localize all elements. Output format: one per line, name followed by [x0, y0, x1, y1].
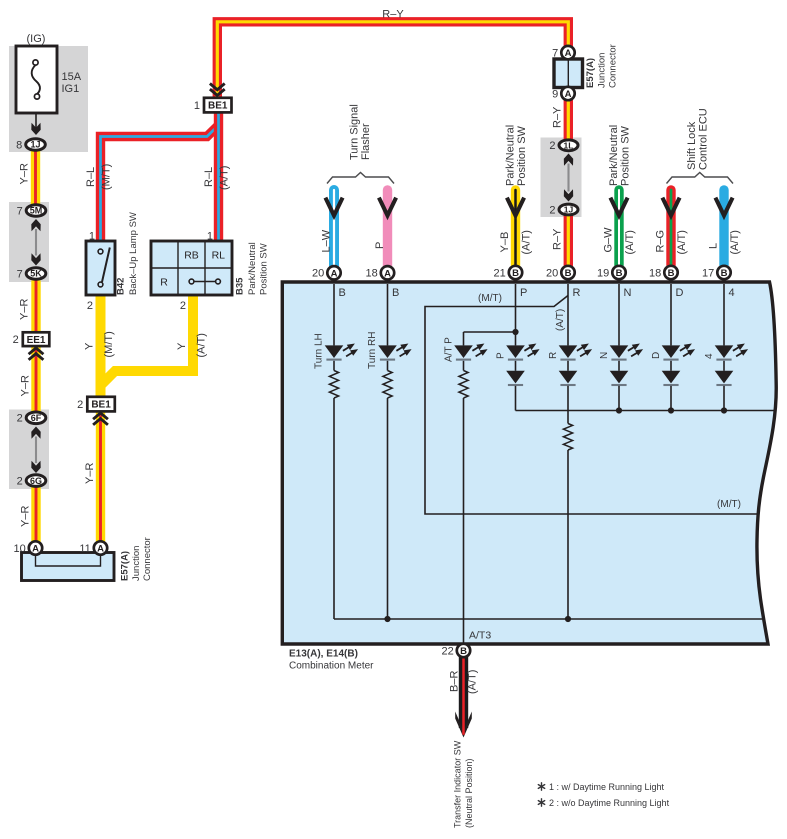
svg-text:D: D [676, 287, 684, 299]
svg-text:(M/T): (M/T) [717, 499, 741, 510]
svg-text:1: 1 [89, 231, 95, 243]
svg-text:BE1: BE1 [208, 101, 228, 112]
svg-text:B: B [616, 268, 623, 279]
svg-text:18: 18 [649, 267, 661, 279]
junction connector E57(A) top right [554, 59, 583, 88]
node 9 (A) [552, 87, 575, 101]
svg-text:Position SW: Position SW [620, 125, 632, 186]
svg-text:7: 7 [17, 268, 23, 280]
back-up lamp switch B42 [86, 241, 115, 295]
svg-text:RL: RL [212, 250, 226, 262]
wire Y (M/T) B42 pin2 to BE1 [96, 294, 106, 399]
svg-text:(Neutral Position): (Neutral Position) [464, 758, 474, 828]
wire R diode to resistor [567, 386, 569, 424]
svg-text:G–W: G–W [603, 227, 615, 253]
wire P branch to A/T P [464, 331, 516, 333]
resistor A/T P [459, 371, 468, 399]
svg-text:2: 2 [549, 140, 555, 152]
wire A/T P down to LED [463, 332, 465, 345]
svg-text:R: R [573, 287, 581, 299]
svg-text:5M: 5M [30, 206, 43, 216]
wire A/T P to pin 22 A/T3 [463, 398, 465, 644]
LED P [506, 344, 539, 360]
node 21 (B) [494, 266, 523, 280]
svg-text:Turn RH: Turn RH [367, 332, 378, 369]
wire 4 diode to bus [723, 386, 725, 411]
svg-text:E13(A), E14(B): E13(A), E14(B) [289, 649, 358, 660]
svg-text:2: 2 [13, 334, 19, 346]
svg-text:2 : w/o Daytime Running Light: 2 : w/o Daytime Running Light [549, 798, 670, 808]
diode below N LED [610, 371, 629, 385]
svg-text:Y–R: Y–R [20, 506, 32, 527]
svg-text:(M/T): (M/T) [103, 331, 115, 357]
wire Y-B park/neutral position SW [511, 190, 520, 266]
wire P diode to bus [515, 386, 517, 411]
arrow into BE1 [210, 84, 225, 96]
svg-text:2: 2 [180, 300, 186, 312]
bus P/N/D/4 to right edge [516, 410, 775, 412]
svg-text:(A/T): (A/T) [729, 230, 741, 254]
svg-text:Connector: Connector [608, 44, 619, 88]
junction Turn RH on bottom bus [384, 616, 390, 622]
svg-text:22: 22 [442, 645, 454, 657]
svg-text:B: B [721, 268, 728, 279]
wire Turn RH to bottom bus [387, 398, 389, 619]
svg-text:R–L: R–L [85, 167, 97, 187]
svg-text:17: 17 [702, 267, 714, 279]
arrow into EE1 [29, 348, 44, 360]
wire Y-R 5K to EE1 [31, 281, 40, 334]
double arrow 1L-1J [567, 164, 569, 192]
LED 4 [715, 344, 748, 360]
node 20 (B) [546, 266, 575, 280]
wire N LED to diode [618, 361, 620, 371]
svg-text:15A: 15A [62, 71, 82, 83]
arrowhead into node 1J [31, 123, 40, 135]
svg-text:A: A [565, 89, 572, 100]
wire D LED to diode [670, 361, 672, 371]
svg-text:A: A [565, 48, 572, 59]
junction block EE1 (pin 2) [13, 332, 50, 346]
svg-text:(M/T): (M/T) [478, 293, 502, 304]
svg-text:Combination Meter: Combination Meter [289, 661, 374, 672]
wire G-W park/neutral position SW [614, 190, 623, 266]
wire R-Y from BE1 to E57(A) junction [217, 22, 568, 99]
wire pin 4 to LED [723, 284, 725, 345]
bottom bus to right edge [334, 618, 762, 620]
svg-text:20: 20 [546, 267, 558, 279]
LED N [610, 344, 643, 360]
svg-text:Y–R: Y–R [19, 299, 31, 320]
wire P LED to diode [515, 361, 517, 371]
wire pin R to LED [567, 284, 569, 345]
arrow into G-W wire [610, 198, 627, 216]
svg-text:RB: RB [184, 250, 199, 262]
diode below P LED [506, 371, 525, 385]
wire R resistor to bottom bus [567, 450, 569, 619]
svg-text:B: B [668, 268, 675, 279]
wire A/T P LED to resistor [463, 361, 465, 371]
wire R-Y 1J to pin 20B [564, 216, 573, 267]
wire R-Y 9A to 1L [564, 100, 573, 141]
svg-text:(M/T): (M/T) [101, 164, 113, 190]
wire P turn signal flasher [383, 190, 392, 266]
svg-text:L–W: L–W [321, 229, 333, 252]
svg-text:Turn LH: Turn LH [314, 333, 325, 369]
node 18 (A) [366, 266, 395, 280]
junction 4 on bus [721, 407, 727, 413]
LED D [662, 344, 695, 360]
svg-text:A/T3: A/T3 [469, 630, 491, 642]
svg-text:(A/T): (A/T) [521, 230, 533, 254]
svg-text:10: 10 [14, 543, 26, 555]
combination meter E13(A)/E14(B) body [282, 282, 776, 644]
park/neutral position switch B35 [151, 241, 232, 295]
resistor R column [563, 424, 572, 451]
svg-text:2: 2 [17, 413, 23, 425]
wire Y-R EE1 to 6F [31, 346, 40, 412]
gray box: ignition fuse block [9, 46, 88, 152]
node 2 (1J) right [549, 204, 578, 216]
wire R-L (A/T) BE1 to B35 pin1 [214, 112, 223, 243]
double arrow 6F-6G [35, 437, 37, 464]
svg-text:(A/T): (A/T) [676, 230, 688, 254]
arrow into R-G wire [662, 198, 679, 216]
wire Turn LH pin B to LED [333, 284, 335, 345]
svg-text:2: 2 [77, 399, 83, 411]
svg-text:Junction: Junction [131, 546, 142, 581]
svg-text:Y: Y [176, 342, 188, 350]
svg-text:(A/T): (A/T) [467, 670, 479, 694]
gray box: connectors 5M/5K [9, 202, 49, 282]
wire R LED to diode [567, 361, 569, 371]
node 10 (A) [14, 541, 43, 555]
svg-text:Junction: Junction [597, 53, 608, 88]
svg-text:R: R [548, 352, 559, 359]
svg-text:1 : w/ Daytime Running Light: 1 : w/ Daytime Running Light [549, 782, 665, 792]
svg-text:4: 4 [704, 353, 715, 359]
svg-text:1J: 1J [30, 140, 40, 150]
wire Turn LH to bottom bus [333, 398, 335, 619]
svg-text:2: 2 [549, 204, 555, 216]
svg-text:A/T P: A/T P [444, 337, 455, 362]
svg-text:2: 2 [17, 476, 23, 488]
svg-text:E57(A): E57(A) [585, 58, 596, 88]
diode below D LED [662, 371, 681, 385]
node 19 (B) [597, 266, 626, 280]
svg-text:N: N [624, 287, 632, 299]
wire Turn LH LED to resistor [333, 361, 335, 371]
svg-text:Shift Lock: Shift Lock [686, 121, 698, 170]
svg-text:Y–R: Y–R [19, 163, 31, 184]
wire pin N to LED [618, 284, 620, 345]
LED Turn LH [325, 344, 358, 360]
arrow into L wire [715, 198, 732, 216]
svg-text:Park/Neutral: Park/Neutral [608, 125, 620, 186]
svg-text:Position SW: Position SW [516, 125, 528, 186]
svg-text:P: P [496, 352, 507, 359]
svg-text:Connector: Connector [142, 537, 153, 581]
svg-text:Control ECU: Control ECU [698, 108, 710, 170]
svg-text:1J: 1J [564, 205, 574, 215]
node 7 (5K) [17, 268, 46, 281]
svg-text:R–Y: R–Y [552, 228, 564, 250]
svg-text:R–Y: R–Y [382, 9, 404, 21]
svg-text:Turn Signal: Turn Signal [349, 104, 361, 160]
svg-text:20: 20 [312, 268, 324, 280]
wire (M/T) bypass path [425, 296, 757, 515]
resistor Turn LH [329, 371, 338, 399]
wire R-L (M/T) B42 pin1 to BE1 [101, 125, 219, 242]
svg-text:Park/Neutral: Park/Neutral [247, 242, 258, 295]
svg-text:A: A [384, 268, 391, 279]
diode below R LED [559, 371, 578, 385]
junction connector E57(A) bottom left [22, 553, 115, 581]
arrow into L-W wire [325, 198, 342, 216]
svg-text:4: 4 [729, 287, 735, 299]
wire N diode to bus [618, 386, 620, 411]
svg-text:1L: 1L [564, 141, 574, 151]
svg-text:Park/Neutral: Park/Neutral [505, 125, 517, 186]
svg-text:19: 19 [597, 267, 609, 279]
svg-text:B35: B35 [235, 277, 246, 295]
svg-text:R–L: R–L [203, 167, 215, 187]
svg-text:B: B [512, 268, 519, 279]
wire 4 LED to diode [723, 361, 725, 371]
node 11 (A) [79, 541, 107, 555]
wire Y-R 1J to 5M [31, 151, 40, 204]
wire pin D to LED [670, 284, 672, 345]
arrow into BE1 [93, 413, 108, 425]
svg-text:Position SW: Position SW [259, 243, 270, 295]
wire D diode to bus [670, 386, 672, 411]
diode below 4 LED [715, 371, 734, 385]
svg-text:B42: B42 [116, 278, 127, 295]
resistor Turn RH [383, 371, 392, 399]
wire Y-R BE1 to 11A [96, 410, 105, 542]
node 7 (A) [552, 46, 575, 60]
svg-text:2: 2 [87, 300, 93, 312]
svg-text:Y–R: Y–R [20, 375, 32, 396]
junction block BE1 (pin 1) [194, 98, 232, 113]
svg-text:(IG): (IG) [27, 33, 46, 45]
LED Turn RH [378, 344, 411, 360]
node 18 (B) [649, 266, 678, 280]
svg-text:EE1: EE1 [27, 335, 46, 346]
svg-text:B: B [565, 268, 572, 279]
svg-text:R: R [160, 277, 168, 289]
svg-text:B–R: B–R [449, 671, 461, 692]
junction on P wire [512, 329, 518, 335]
svg-text:B: B [460, 646, 467, 657]
svg-text:Y–B: Y–B [499, 232, 511, 253]
svg-text:A: A [97, 544, 104, 555]
LED A/T P [454, 344, 487, 360]
brace turn signal flasher [327, 173, 394, 184]
svg-text:8: 8 [16, 139, 22, 151]
wire B-R (A/T) pin 22 to transfer indicator SW [459, 657, 468, 728]
node 2 (1L) [549, 140, 578, 152]
svg-text:11: 11 [79, 543, 90, 555]
svg-text:1: 1 [207, 231, 213, 243]
svg-text:Flasher: Flasher [360, 123, 372, 160]
svg-text:Y: Y [84, 342, 96, 350]
footnote 1 [538, 783, 544, 790]
node 8 (1J) [16, 139, 45, 152]
svg-text:5K: 5K [30, 269, 42, 279]
arrow into P wire [379, 198, 396, 216]
svg-text:P: P [520, 287, 527, 299]
svg-text:B: B [339, 287, 346, 299]
svg-text:9: 9 [552, 88, 558, 100]
svg-text:21: 21 [494, 267, 506, 279]
wire Turn RH pin B to LED [387, 284, 389, 345]
svg-text:A: A [331, 268, 338, 279]
brace shift lock control ECU [667, 173, 734, 184]
gray box: connectors 1L/1J [541, 138, 582, 218]
svg-text:P: P [374, 242, 386, 249]
svg-text:R–G: R–G [655, 230, 667, 253]
wire R-G shift lock ECU [666, 190, 675, 266]
svg-text:7: 7 [17, 205, 23, 217]
svg-text:N: N [599, 352, 610, 359]
double arrow 5M-5K [35, 229, 37, 256]
LED R [559, 344, 592, 360]
junction block BE1 (pin 2) [77, 397, 115, 412]
svg-text:(A/T): (A/T) [219, 166, 231, 190]
svg-text:D: D [651, 352, 662, 359]
wire Y-R 6G to 10A [31, 487, 40, 542]
svg-text:18: 18 [366, 268, 378, 280]
svg-text:6F: 6F [31, 413, 42, 423]
footnote 2 [538, 799, 544, 806]
wire L shift lock ECU [719, 190, 728, 266]
wire pin P to LED [515, 284, 517, 345]
svg-text:BE1: BE1 [91, 400, 111, 411]
node 17 (B) [702, 266, 731, 280]
svg-text:Transfer Indicator SW: Transfer Indicator SW [453, 740, 463, 828]
svg-text:(A/T): (A/T) [555, 309, 566, 331]
svg-text:A: A [32, 544, 39, 555]
svg-text:R–Y: R–Y [552, 106, 564, 128]
node 22 (B) A/T3 [442, 644, 471, 658]
node 2 (6F) [17, 412, 46, 425]
svg-text:IG1: IG1 [62, 83, 80, 95]
svg-text:6G: 6G [30, 476, 42, 486]
svg-text:(A/T): (A/T) [624, 230, 636, 254]
node 7 (5M) [17, 205, 46, 218]
gray box: connectors 6F/6G [9, 410, 49, 490]
svg-text:L: L [708, 243, 720, 249]
svg-text:B: B [392, 287, 399, 299]
svg-text:E57(A): E57(A) [120, 551, 131, 581]
wire Y (A/T) B35 pin2 joining M/T wire [100, 294, 194, 387]
wire fuse to node 1J [35, 113, 37, 128]
svg-text:7: 7 [552, 48, 558, 60]
wire Turn RH LED to resistor [387, 361, 389, 371]
svg-text:Back–Up Lamp SW: Back–Up Lamp SW [128, 212, 139, 295]
arrow into Y-B wire [507, 198, 524, 216]
svg-text:Y–R: Y–R [84, 463, 96, 484]
svg-text:1: 1 [194, 100, 200, 112]
junction N on bus [616, 407, 622, 413]
junction D on bus [668, 407, 674, 413]
fuse 15A IG1 [16, 46, 57, 113]
node 2 (6G) [17, 475, 46, 488]
node 20 (A) [312, 266, 341, 280]
svg-text:(A/T): (A/T) [196, 333, 208, 357]
wire L-W turn signal flasher [329, 190, 339, 266]
junction R on bottom bus [565, 616, 571, 622]
